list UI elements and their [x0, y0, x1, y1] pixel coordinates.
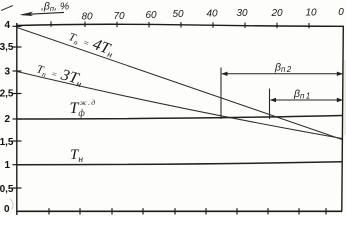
svg-text:40: 40	[206, 9, 218, 20]
y-axis	[16, 23, 18, 215]
svg-text:0,5: 0,5	[0, 184, 14, 195]
svg-text:2: 2	[4, 114, 10, 125]
svg-text:50: 50	[172, 9, 184, 20]
dimension beta_p2	[222, 73, 342, 75]
svg-text:1: 1	[4, 160, 10, 171]
bottom ticks	[49, 208, 326, 214]
svg-text:,βп, %: ,βп, %	[41, 1, 69, 14]
line Tp=4Tn	[17, 28, 342, 140]
svg-text:0: 0	[4, 204, 10, 215]
y labels	[0, 20, 14, 215]
svg-text:70: 70	[113, 11, 125, 22]
horizontal line T_n	[17, 162, 342, 165]
label Tp=4Tn	[66, 27, 117, 61]
svg-text:1,5: 1,5	[0, 137, 14, 148]
svg-text:4: 4	[4, 20, 10, 31]
stray corner mark	[1, 6, 13, 11]
svg-text:2,5: 2,5	[0, 89, 14, 100]
label Tp=3Tn	[34, 60, 84, 91]
faint edge smudge	[344, 60, 346, 135]
svg-text:0: 0	[338, 7, 344, 18]
axis direction arrow	[22, 12, 64, 14]
top labels	[81, 7, 344, 23]
line Tp=3Tn	[17, 72, 342, 139]
svg-text:10: 10	[305, 8, 317, 19]
svg-text:30: 30	[236, 8, 248, 19]
svg-text:20: 20	[270, 8, 283, 19]
bottom x-axis	[17, 210, 343, 212]
top ticks	[51, 21, 309, 28]
svg-text:60: 60	[145, 10, 157, 21]
vertical marker 2	[269, 89, 271, 120]
horizontal line T_f	[17, 116, 342, 120]
right boundary	[342, 26, 344, 212]
top x-axis	[16, 24, 344, 26]
svg-text:3: 3	[4, 67, 10, 78]
dimension beta_p1	[271, 99, 343, 101]
svg-text:3,5: 3,5	[0, 42, 14, 53]
svg-text:80: 80	[81, 12, 93, 23]
y ticks	[13, 26, 22, 188]
faint corner curve	[10, 199, 13, 209]
vertical marker 1	[220, 68, 222, 120]
